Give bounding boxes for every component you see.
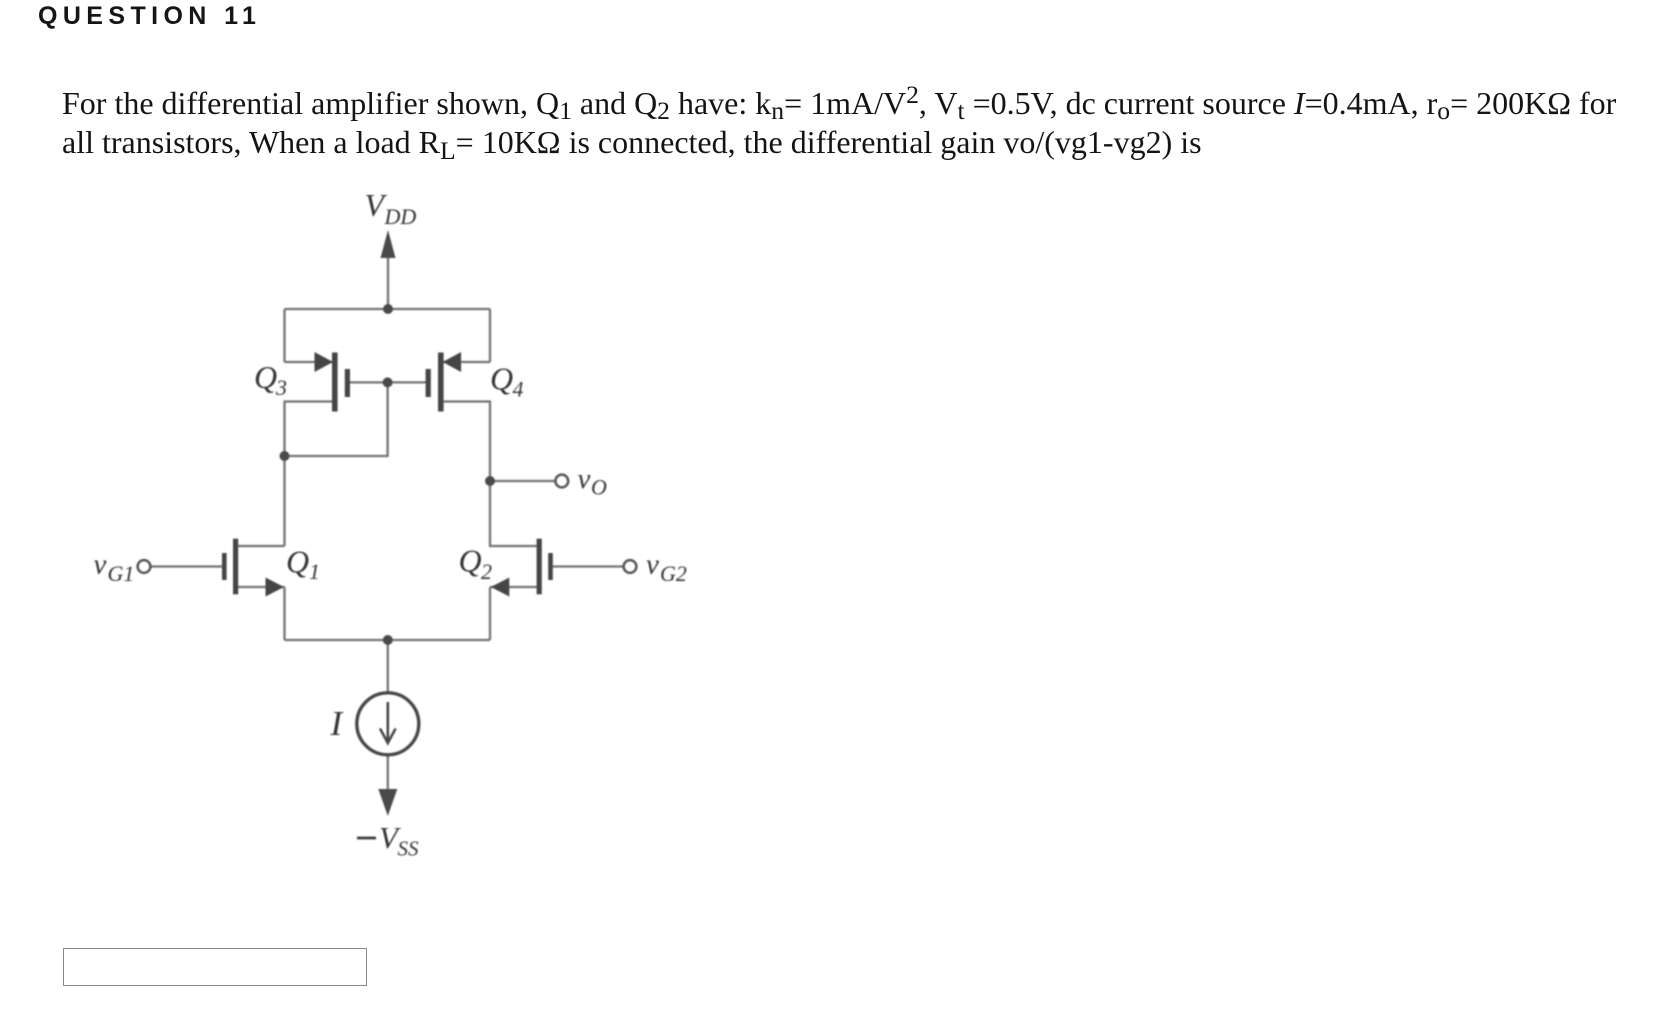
node: gate bus junction dot xyxy=(383,377,393,387)
wire: current source to VSS arrow xyxy=(387,755,389,792)
wire: right source drop xyxy=(489,587,491,640)
node: tail junction dot xyxy=(383,635,393,645)
node: VDD junction dot xyxy=(383,304,393,314)
answer input box xyxy=(63,948,367,986)
wire: Q1 drain lead xyxy=(238,545,285,547)
svg-text:3: 3 xyxy=(275,375,287,400)
label -VSS minus sign xyxy=(357,837,376,840)
svg-text:Q: Q xyxy=(286,544,309,580)
wire: top rail xyxy=(285,308,491,310)
wire: Q4 source lead xyxy=(444,361,490,363)
svg-text:I: I xyxy=(330,704,345,743)
wire: Q1 source lead xyxy=(238,586,285,588)
transistor Q1 (NMOS) xyxy=(222,539,284,597)
transistor Q3 (PMOS) xyxy=(315,352,351,412)
svg-text:Q: Q xyxy=(490,361,513,397)
label -VSS text xyxy=(379,820,419,861)
power VDD arrow xyxy=(381,230,396,258)
wire: vO tap xyxy=(490,480,556,482)
node A junction dot xyxy=(280,451,290,461)
wire: tail down to current source xyxy=(387,640,389,693)
wire: Q2 gate lead xyxy=(553,565,624,567)
svg-text:G2: G2 xyxy=(660,561,687,586)
transistor Q4 (PMOS) xyxy=(426,352,462,412)
transistor Q2 (NMOS) xyxy=(491,539,553,597)
svg-text:Q: Q xyxy=(254,359,277,395)
terminal: vG2 open circle xyxy=(624,560,637,573)
svg-text:SS: SS xyxy=(398,837,420,861)
svg-text:v: v xyxy=(94,549,107,581)
wire: left source drop xyxy=(283,587,285,640)
terminal: vG1 open circle xyxy=(138,560,151,573)
wire: Q3 source lead xyxy=(285,361,333,363)
wire: right drop rail to Q4 source xyxy=(489,309,491,362)
wire: Q3 drain lead xyxy=(285,402,333,457)
node: vO junction dot xyxy=(485,476,495,486)
svg-text:2: 2 xyxy=(481,559,492,584)
wire: bottom rail xyxy=(285,639,491,641)
wire: Q2 source lead xyxy=(490,586,537,588)
svg-text:1: 1 xyxy=(309,559,320,584)
svg-text:v: v xyxy=(578,463,591,495)
current source I xyxy=(357,693,419,755)
labels xyxy=(94,187,687,743)
wire: VDD shaft xyxy=(387,255,389,309)
wire: Q1 gate lead xyxy=(150,565,222,567)
svg-text:DD: DD xyxy=(384,204,417,229)
wire: gate feedback to node A xyxy=(285,382,388,456)
wire: left drop rail to Q3 source xyxy=(283,309,285,362)
wire: right vertical to Q2 drain xyxy=(490,481,537,546)
wire: left vertical node A to Q1 drain xyxy=(283,456,285,546)
wire: gate bus Q3-Q4 xyxy=(350,381,426,383)
svg-text:G1: G1 xyxy=(108,561,135,586)
wire: Q4 drain lead xyxy=(444,402,490,482)
terminal: vO open circle xyxy=(555,475,568,488)
svg-text:Q: Q xyxy=(459,543,482,579)
svg-text:4: 4 xyxy=(513,377,524,402)
svg-text:v: v xyxy=(646,549,659,581)
power -VSS arrow xyxy=(378,789,397,816)
svg-text:O: O xyxy=(591,475,607,500)
